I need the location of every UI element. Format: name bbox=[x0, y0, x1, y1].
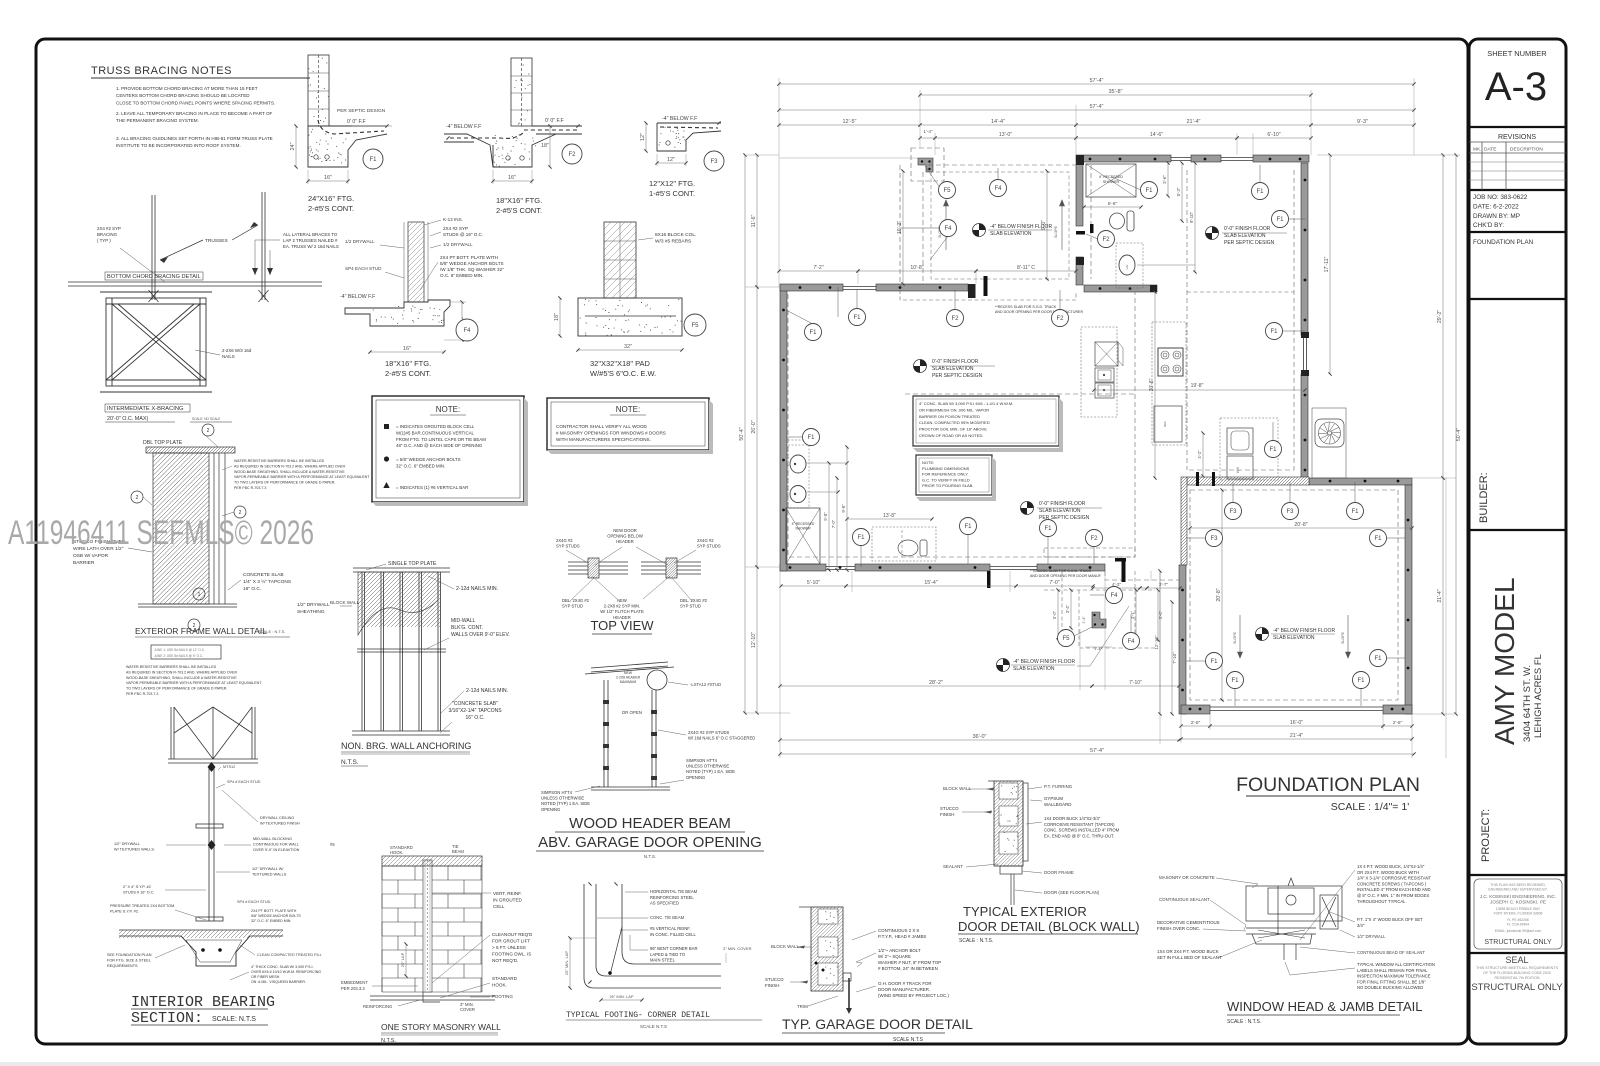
F1 footing concrete bbox=[308, 126, 387, 167]
interior bearing wall stud bbox=[196, 766, 223, 921]
svg-text:1/4" X 3-1/4" CORROSIVE RESIST: 1/4" X 3-1/4" CORROSIVE RESISTANT bbox=[1357, 876, 1432, 881]
svg-text:W/ 16d NAILS 6" O.C STAGGERED: W/ 16d NAILS 6" O.C STAGGERED bbox=[688, 736, 755, 741]
svg-text:EXTERIOR FRAME WALL DETAIL: EXTERIOR FRAME WALL DETAIL bbox=[135, 626, 267, 636]
wood header beam top bbox=[585, 662, 674, 674]
svg-text:#5 VERTICAL REINF.: #5 VERTICAL REINF. bbox=[650, 926, 691, 931]
svg-text:FOUNDATION PLAN: FOUNDATION PLAN bbox=[1473, 239, 1534, 246]
footing tag F2 bbox=[1052, 310, 1069, 327]
svg-text:MASONRY OR CONCRETE: MASONRY OR CONCRETE bbox=[1159, 875, 1215, 880]
svg-text:AND DOOR OPENING PER DOOR MANU: AND DOOR OPENING PER DOOR MANUFACTURER bbox=[995, 310, 1083, 314]
svg-text:W/ TEXTURED WALLS.: W/ TEXTURED WALLS. bbox=[114, 848, 155, 852]
note box contractor verify bbox=[547, 398, 709, 450]
svg-text:SCALE N.T.S: SCALE N.T.S bbox=[640, 1024, 667, 1029]
corner bar diagonal bbox=[610, 927, 622, 975]
svg-text:K-13 INS.: K-13 INS. bbox=[443, 217, 463, 222]
dim garage interior bbox=[1190, 527, 1412, 529]
kitchen counters dashed bbox=[1081, 322, 1186, 445]
svg-text:8'-11" C: 8'-11" C bbox=[1017, 265, 1035, 271]
svg-text:1/4" X 3 ½" TAPCONS: 1/4" X 3 ½" TAPCONS bbox=[243, 578, 291, 585]
svg-text:0' 0" F.F: 0' 0" F.F bbox=[347, 119, 366, 125]
bottom page edge band bbox=[0, 1062, 1600, 1066]
svg-text:BOTTOM CHORD BRACING DETAIL: BOTTOM CHORD BRACING DETAIL bbox=[107, 274, 201, 280]
svg-text:12"X12" FTG.: 12"X12" FTG. bbox=[649, 179, 695, 188]
footing tag F1 bbox=[1265, 441, 1282, 458]
footing tag F2 bbox=[1086, 530, 1103, 547]
svg-text:= INDICATES GROUTED BLOCK CELL: = INDICATES GROUTED BLOCK CELL bbox=[396, 424, 475, 429]
svg-text:PER FBC R-703.7.3: PER FBC R-703.7.3 bbox=[126, 692, 158, 696]
svg-text:PLATE S.Y.P. #2.: PLATE S.Y.P. #2. bbox=[110, 910, 139, 914]
F2 rebar dashes bbox=[450, 130, 578, 138]
svg-text:DOOR (SEE FLOOR PLAN): DOOR (SEE FLOOR PLAN) bbox=[1044, 890, 1100, 895]
svg-text:VERT. REINF.: VERT. REINF. bbox=[493, 891, 522, 896]
svg-text:DBL. 2X4G #2: DBL. 2X4G #2 bbox=[562, 598, 590, 603]
wall garage left bbox=[1179, 565, 1186, 714]
svg-text:-4" BELOW FINISH FLOOR: -4" BELOW FINISH FLOOR bbox=[1013, 659, 1075, 665]
svg-text:DRAWN BY: MP: DRAWN BY: MP bbox=[1473, 213, 1520, 220]
svg-text:= INDICATES (1) #6 VERTICAL BA: = INDICATES (1) #6 VERTICAL BAR bbox=[396, 485, 468, 490]
svg-text:O.H. DOOR # TRACK FOR: O.H. DOOR # TRACK FOR bbox=[878, 981, 932, 986]
svg-text:F2: F2 bbox=[1102, 237, 1110, 243]
svg-text:1'-4": 1'-4" bbox=[923, 129, 933, 134]
svg-text:LAV: LAV bbox=[1125, 264, 1129, 269]
F3 rebar dashes bbox=[660, 127, 718, 128]
door opening jambs bbox=[591, 680, 670, 790]
svg-text:5/8" WEDGE ANCHOR BOLTS: 5/8" WEDGE ANCHOR BOLTS bbox=[440, 261, 504, 266]
svg-text:25" LAP: 25" LAP bbox=[400, 952, 405, 967]
svg-text:JOB NO: 383-0622: JOB NO: 383-0622 bbox=[1473, 194, 1528, 201]
svg-text:1/2"~ ANCHOR BOLT: 1/2"~ ANCHOR BOLT bbox=[878, 948, 921, 953]
svg-text:SECTION:: SECTION: bbox=[131, 1010, 203, 1027]
svg-text:SLOPE: SLOPE bbox=[1233, 631, 1237, 644]
svg-text:LABELS SHALL REMAIN FOR FINAL: LABELS SHALL REMAIN FOR FINAL bbox=[1357, 968, 1428, 973]
footing tag F4 bbox=[990, 180, 1007, 197]
svg-text:2-2X6 W/3 16d: 2-2X6 W/3 16d bbox=[222, 348, 252, 353]
footing tag F1 bbox=[1040, 520, 1057, 537]
svg-text:13'-8": 13'-8" bbox=[883, 513, 896, 519]
interior dashed slab edges bbox=[788, 165, 1398, 700]
svg-text:W(1)#5 BAR.CONTINUOUS VERTICAL: W(1)#5 BAR.CONTINUOUS VERTICAL bbox=[396, 430, 475, 435]
svg-text:SP4 # EACH STUD: SP4 # EACH STUD bbox=[237, 900, 271, 904]
svg-text:IN GROUTED: IN GROUTED bbox=[493, 898, 523, 903]
dim top extension lines bbox=[779, 78, 1414, 287]
svg-text:F2: F2 bbox=[568, 152, 576, 158]
svg-text:SCALE: NO SCALE: SCALE: NO SCALE bbox=[192, 417, 220, 421]
bath2 dashed partitions bbox=[788, 440, 936, 561]
svg-text:TOP VIEW: TOP VIEW bbox=[590, 618, 654, 633]
svg-text:WASHER # NUT, 8" FROM TOP: WASHER # NUT, 8" FROM TOP bbox=[878, 960, 941, 965]
svg-text:WOOD-BASE SHEATHING, SHALL INC: WOOD-BASE SHEATHING, SHALL INCLUDE A WAT… bbox=[126, 676, 237, 680]
wall garage right bbox=[1405, 485, 1412, 714]
svg-text:F1: F1 bbox=[809, 330, 817, 336]
slab note box bbox=[913, 396, 1059, 446]
svg-text:35'-8": 35'-8" bbox=[1108, 89, 1122, 95]
svg-text:3" MIN. COVER: 3" MIN. COVER bbox=[723, 946, 752, 951]
svg-text:PER SEPTIC DESIGN: PER SEPTIC DESIGN bbox=[337, 108, 386, 114]
wall left wing top bbox=[780, 284, 843, 291]
svg-text:5'-0": 5'-0" bbox=[1158, 610, 1163, 619]
svg-text:SHOWER: SHOWER bbox=[1103, 180, 1120, 184]
svg-text:3. ALL BRACING GUIDLINES SET: 3. ALL BRACING GUIDLINES SET FORTH IN HI… bbox=[116, 136, 273, 141]
svg-text:0'-0" FINISH FLOOR: 0'-0" FINISH FLOOR bbox=[932, 359, 979, 365]
footing tag F3 bbox=[1282, 503, 1299, 520]
svg-text:2X4G #2: 2X4G #2 bbox=[697, 538, 714, 543]
svg-text:BUILDER:: BUILDER: bbox=[1478, 472, 1490, 523]
svg-text:CONTINUOUS 2 X 8: CONTINUOUS 2 X 8 bbox=[878, 928, 920, 933]
svg-text:20'-8": 20'-8" bbox=[1294, 522, 1307, 528]
svg-text:FOR FINAL FITTING SHALL BE 1/: FOR FINAL FITTING SHALL BE 1/8" bbox=[1357, 979, 1426, 984]
svg-text:NEW DOOR: NEW DOOR bbox=[613, 528, 637, 533]
svg-text:PROJECT:: PROJECT: bbox=[1480, 809, 1492, 862]
dim top 57-4 line2 bbox=[779, 109, 1414, 111]
F4 16 inch dim bbox=[370, 351, 444, 353]
svg-text:STUCCO: STUCCO bbox=[765, 977, 784, 982]
svg-text:17'-11": 17'-11" bbox=[1324, 256, 1330, 272]
slab elevation garage bbox=[1256, 628, 1269, 641]
svg-text:4" THICK CONC. SLAB W/ 3,000 P: 4" THICK CONC. SLAB W/ 3,000 P.S.I. bbox=[251, 965, 313, 969]
svg-text:F4: F4 bbox=[1127, 639, 1135, 645]
kitchen wall oven bbox=[1095, 342, 1118, 366]
F4 18 inch dim bbox=[461, 302, 463, 340]
dim left verticals bbox=[756, 155, 758, 287]
svg-text:THROUGHOUT TYPICAL: THROUGHOUT TYPICAL bbox=[1357, 899, 1406, 904]
svg-text:BLOCK WALL: BLOCK WALL bbox=[771, 944, 799, 949]
svg-text:36'-0": 36'-0" bbox=[972, 734, 986, 740]
svg-text:WATER-RESISTIVE BARRIERS SHALL: WATER-RESISTIVE BARRIERS SHALL BE INSTAL… bbox=[234, 459, 325, 463]
svg-text:WOOD-BASE SHEATHING, SHALL INC: WOOD-BASE SHEATHING, SHALL INCLUDE A WAT… bbox=[234, 470, 345, 474]
svg-text:2-#5'S CONT.: 2-#5'S CONT. bbox=[385, 369, 431, 378]
svg-text:32": 32" bbox=[624, 344, 632, 350]
svg-text:OR FIBERMESH ON .006 MIL. VAP: OR FIBERMESH ON .006 MIL. VAPOR bbox=[919, 407, 989, 412]
svg-text:MID-WALL BLOCKING: MID-WALL BLOCKING bbox=[253, 837, 292, 841]
note box grouted cells bbox=[372, 396, 524, 502]
svg-text:-4" BELOW FINISH FLOOR: -4" BELOW FINISH FLOOR bbox=[1273, 628, 1335, 634]
porch dashed outline bbox=[900, 148, 1076, 287]
engineer stamp box bbox=[1474, 879, 1562, 949]
masonry top tie beam bbox=[382, 856, 482, 866]
patio step blocks bbox=[1092, 612, 1106, 628]
svg-text:9'-3": 9'-3" bbox=[1357, 119, 1368, 125]
svg-text:W/3 #5 REBARS: W/3 #5 REBARS bbox=[655, 239, 691, 245]
svg-text:AS SPECIFIED: AS SPECIFIED bbox=[650, 901, 679, 906]
sgd recess marker bbox=[984, 276, 988, 296]
svg-text:MID-WALL: MID-WALL bbox=[451, 618, 475, 624]
svg-text:0' 0" F.F: 0' 0" F.F bbox=[545, 118, 564, 124]
svg-text:2X4 PT BOTT. PLATE WITH: 2X4 PT BOTT. PLATE WITH bbox=[440, 255, 498, 260]
svg-text:SP4 EACH STUD: SP4 EACH STUD bbox=[345, 266, 382, 271]
svg-text:STANDARD: STANDARD bbox=[492, 976, 518, 981]
plumbing note box bbox=[916, 455, 992, 495]
svg-text:NOTED (TYP) 1 EA. SIDE: NOTED (TYP) 1 EA. SIDE bbox=[541, 801, 590, 806]
svg-text:F1: F1 bbox=[1357, 678, 1365, 684]
svg-text:F3: F3 bbox=[1229, 509, 1237, 515]
wall garage top hatched bbox=[1187, 477, 1309, 485]
F3 12 inch vertical dim bbox=[645, 123, 647, 151]
svg-text:5'-8": 5'-8" bbox=[1108, 201, 1118, 207]
svg-text:OF THE FLORIDA BUILDING CODE: OF THE FLORIDA BUILDING CODE 2020 bbox=[1483, 971, 1551, 975]
wall house bottom bbox=[780, 564, 826, 571]
fridge bbox=[1154, 406, 1182, 442]
svg-text:SLOPE: SLOPE bbox=[1054, 225, 1058, 238]
svg-text:CONTINUOUS SEALANT: CONTINUOUS SEALANT bbox=[1159, 897, 1210, 902]
svg-text:CLOSE TO BOTTOM CHORD PANEL PO: CLOSE TO BOTTOM CHORD PANEL POINTS WHERE… bbox=[116, 100, 275, 105]
svg-text:5'-8": 5'-8" bbox=[823, 512, 828, 521]
svg-text:AND DOOR OPENING PER DOOR MANU: AND DOOR OPENING PER DOOR MANUF. bbox=[1030, 574, 1102, 578]
svg-text:FOR GROUT LIFT: FOR GROUT LIFT bbox=[492, 939, 530, 944]
svg-text:5'-3": 5'-3" bbox=[1176, 187, 1181, 196]
footing tag F1 bbox=[1370, 530, 1387, 547]
svg-text:1/2" DRYWALL: 1/2" DRYWALL bbox=[1357, 934, 1386, 939]
svg-text:DATE: 6-2-2022: DATE: 6-2-2022 bbox=[1473, 203, 1519, 210]
svg-text:F5: F5 bbox=[691, 323, 699, 329]
svg-text:7'-2": 7'-2" bbox=[813, 265, 823, 271]
svg-text:SCALE: N.T.S: SCALE: N.T.S bbox=[212, 1016, 256, 1023]
corner detail dims bbox=[569, 938, 571, 988]
svg-text:LAPED & TIED TO: LAPED & TIED TO bbox=[650, 952, 686, 957]
dim top 35-8 bbox=[920, 94, 1311, 96]
svg-text:F1: F1 bbox=[369, 157, 377, 163]
dim bottom row house bbox=[781, 585, 846, 587]
dim interior upper bbox=[779, 270, 858, 272]
bath2 fixtures left bbox=[788, 445, 809, 508]
svg-text:CLEAN. COMPACTED 95% MODIFIED: CLEAN. COMPACTED 95% MODIFIED bbox=[919, 420, 990, 425]
F2 16 inch dim bbox=[493, 180, 532, 182]
svg-text:NEW: NEW bbox=[624, 671, 633, 675]
svg-text:F1: F1 bbox=[1044, 526, 1052, 532]
svg-text:TYPICAL FOOTING- CORNER DETAIL: TYPICAL FOOTING- CORNER DETAIL bbox=[566, 1011, 710, 1020]
svg-text:GYPSUM: GYPSUM bbox=[1044, 796, 1063, 801]
dim right verticals bbox=[1329, 155, 1331, 374]
svg-text:BARRIER ON POISON TREATED: BARRIER ON POISON TREATED bbox=[919, 414, 980, 419]
svg-text:MK.: MK. bbox=[1473, 147, 1482, 153]
svg-text:F1: F1 bbox=[1210, 659, 1218, 665]
callout circle 1 bbox=[193, 588, 205, 600]
svg-text:INSTITUTE TO BE INCORPORATED I: INSTITUTE TO BE INCORPORATED INTO ROOF S… bbox=[116, 143, 241, 148]
svg-text:PLUMBING DIMENSIONS: PLUMBING DIMENSIONS bbox=[922, 466, 970, 471]
svg-text:**RECESS SLAB FOR S.G.D. TRACK: **RECESS SLAB FOR S.G.D. TRACK bbox=[1030, 569, 1092, 573]
svg-text:FL COA #9494: FL COA #9494 bbox=[1507, 923, 1529, 927]
svg-text:"CONCRETE SLAB": "CONCRETE SLAB" bbox=[452, 701, 498, 707]
svg-text:32" O.C. 6" EMBED MIN.: 32" O.C. 6" EMBED MIN. bbox=[251, 919, 291, 923]
svg-text:ABV. GARAGE DOOR OPENING: ABV. GARAGE DOOR OPENING bbox=[538, 834, 762, 851]
svg-text:57'-4": 57'-4" bbox=[1090, 748, 1104, 754]
svg-text:SHEET NUMBER: SHEET NUMBER bbox=[1487, 49, 1547, 58]
svg-text:STRUCTURAL ONLY: STRUCTURAL ONLY bbox=[1471, 982, 1563, 993]
svg-text:DECORATIVE CEMENTITIOUS: DECORATIVE CEMENTITIOUS bbox=[1157, 920, 1220, 925]
svg-text:MTS12: MTS12 bbox=[223, 765, 235, 769]
svg-text:OVER 6X6 # 10/10 W.W.M. REINFO: OVER 6X6 # 10/10 W.W.M. REINFORCING bbox=[251, 970, 321, 974]
svg-text:14'-6": 14'-6" bbox=[1150, 132, 1163, 138]
svg-text:12'-5": 12'-5" bbox=[842, 119, 856, 125]
svg-text:SYP STUDS: SYP STUDS bbox=[556, 544, 580, 549]
svg-text:CENTERS BOTTOM CHORD BRACING S: CENTERS BOTTOM CHORD BRACING SHOULD BE L… bbox=[116, 93, 250, 98]
interior bearing truss top bbox=[168, 707, 258, 763]
svg-text:FL PE #52266: FL PE #52266 bbox=[1507, 918, 1529, 922]
svg-text:PER SEPTIC DESIGN: PER SEPTIC DESIGN bbox=[932, 373, 983, 379]
svg-text:ALL LATERAL BRACES TO: ALL LATERAL BRACES TO bbox=[283, 232, 338, 237]
dim bottom extensions bbox=[780, 478, 1446, 758]
svg-text:5/8" WEDGE ANCHOR BOLTS: 5/8" WEDGE ANCHOR BOLTS bbox=[251, 914, 301, 918]
svg-text:10'-2": 10'-2" bbox=[897, 221, 903, 234]
svg-text:F1: F1 bbox=[1256, 189, 1264, 195]
svg-text:O.C. 6" EMBED MIN.: O.C. 6" EMBED MIN. bbox=[440, 273, 484, 278]
slope arrows garage bbox=[1238, 615, 1351, 658]
svg-text:18": 18" bbox=[554, 313, 560, 321]
svg-text:WOOD HEADER BEAM: WOOD HEADER BEAM bbox=[569, 815, 731, 832]
svg-text:1X4 DOOR BUCK 1/4"X2-3/4": 1X4 DOOR BUCK 1/4"X2-3/4" bbox=[1044, 816, 1101, 821]
wh pad bbox=[1227, 428, 1253, 454]
svg-text:PER SEPTIC DESIGN: PER SEPTIC DESIGN bbox=[1224, 240, 1275, 246]
svg-text:F2: F2 bbox=[951, 316, 959, 322]
svg-text:CONTRACTOR SHALL VERIFY ALL WO: CONTRACTOR SHALL VERIFY ALL WOOD bbox=[556, 424, 648, 429]
svg-text:STUCCO: STUCCO bbox=[940, 806, 959, 811]
garage door track bbox=[848, 978, 850, 1008]
footing tag F4 bbox=[456, 319, 478, 341]
svg-text:SEALANT: SEALANT bbox=[943, 864, 963, 869]
svg-text:DATE: DATE bbox=[1484, 147, 1496, 153]
svg-text:1. PROVIDE BOTTOM CHORD BRAC: 1. PROVIDE BOTTOM CHORD BRACING AT MORE … bbox=[116, 86, 258, 91]
dims lower-left interior bbox=[847, 518, 932, 520]
svg-text:BRACING: BRACING bbox=[97, 232, 118, 237]
svg-text:5'-10": 5'-10" bbox=[807, 580, 820, 586]
svg-text:2X4G #2 SYP STUDS: 2X4G #2 SYP STUDS bbox=[688, 730, 730, 735]
patio dashed lines rear bbox=[1044, 548, 1155, 648]
callout circles 2 bbox=[202, 424, 214, 436]
svg-text:3'-7": 3'-7" bbox=[1159, 582, 1169, 587]
svg-text:2X4 #2 SYP: 2X4 #2 SYP bbox=[97, 226, 121, 231]
svg-text:SP4 # EACH STUD: SP4 # EACH STUD bbox=[227, 780, 261, 784]
footing tag F5 bbox=[939, 182, 956, 199]
svg-text:BLOCK WALL: BLOCK WALL bbox=[943, 786, 971, 791]
svg-text:29'-2": 29'-2" bbox=[1437, 310, 1443, 323]
dim top segments row bbox=[779, 124, 920, 126]
svg-text:3'-4": 3'-4" bbox=[1065, 604, 1070, 613]
svg-text:12'-10": 12'-10" bbox=[1154, 635, 1159, 650]
svg-text:F1: F1 bbox=[1269, 447, 1277, 453]
svg-text:2. LEAVE ALL TEMPORARY BRACI: 2. LEAVE ALL TEMPORARY BRACING IN PLACE … bbox=[116, 111, 273, 116]
job info cell bbox=[1469, 231, 1566, 233]
footing tag F1 bbox=[363, 149, 383, 169]
svg-text:2'-8": 2'-8" bbox=[1393, 720, 1403, 726]
svg-text:2'-8": 2'-8" bbox=[1191, 720, 1201, 726]
svg-text:F1: F1 bbox=[1145, 188, 1153, 194]
F1 16 inch dim bbox=[308, 180, 348, 182]
svg-text:PER 203.3.3: PER 203.3.3 bbox=[341, 986, 365, 991]
svg-text:INTERIOR BEARING: INTERIOR BEARING bbox=[131, 994, 275, 1011]
footing tag F1 bbox=[960, 518, 977, 535]
svg-text:DOOR FRAME: DOOR FRAME bbox=[1044, 870, 1074, 875]
svg-text:G.C. TO VERIFY IN FIELD: G.C. TO VERIFY IN FIELD bbox=[922, 477, 970, 482]
svg-text:THIS PLAN HAS BEEN REVIEWED,: THIS PLAN HAS BEEN REVIEWED, bbox=[1490, 883, 1546, 887]
svg-text:25" MIN. LAP: 25" MIN. LAP bbox=[609, 994, 633, 999]
svg-text:4'-2": 4'-2" bbox=[1197, 450, 1202, 459]
svg-text:21'-4": 21'-4" bbox=[1290, 733, 1303, 739]
svg-text:DR OPEN: DR OPEN bbox=[622, 710, 642, 715]
svg-text:16'-0": 16'-0" bbox=[1290, 720, 1303, 726]
svg-text:CONCRETE SLAB: CONCRETE SLAB bbox=[243, 572, 284, 578]
svg-text:THE PERMANENT BRACING SYSTEM.: THE PERMANENT BRACING SYSTEM. bbox=[116, 118, 199, 123]
svg-text:32" O.C. 6" EMBED MIN.: 32" O.C. 6" EMBED MIN. bbox=[396, 463, 445, 468]
slab elevation living bbox=[914, 360, 927, 373]
svg-text:W/ TEXTURED FINISH: W/ TEXTURED FINISH bbox=[260, 822, 300, 826]
svg-text:STUDS # 16" O.C.: STUDS # 16" O.C. bbox=[123, 891, 155, 895]
revisions table bbox=[1469, 189, 1566, 191]
svg-text:F1: F1 bbox=[964, 524, 972, 530]
svg-text:57'-4": 57'-4" bbox=[1089, 104, 1103, 110]
svg-text:OR FIBER MESH: OR FIBER MESH bbox=[251, 975, 280, 979]
builder cell bbox=[1469, 529, 1566, 531]
svg-text:2X4 #2 SYP: 2X4 #2 SYP bbox=[443, 226, 468, 231]
svg-text:TRUSS BRACING NOTES: TRUSS BRACING NOTES bbox=[91, 65, 232, 77]
garage door wall section bbox=[811, 907, 843, 991]
svg-text:24"X16" FTG.: 24"X16" FTG. bbox=[308, 194, 354, 203]
svg-text:2-#5'S CONT.: 2-#5'S CONT. bbox=[308, 204, 354, 213]
masonry footing lines bbox=[370, 995, 495, 997]
svg-text:N.T.S.: N.T.S. bbox=[644, 854, 656, 859]
svg-text:BLOCK WALL: BLOCK WALL bbox=[330, 600, 360, 605]
svg-text:21'-4": 21'-4" bbox=[1437, 589, 1443, 602]
svg-text:ONE STORY MASONRY WALL: ONE STORY MASONRY WALL bbox=[381, 1022, 501, 1032]
svg-text:-4" BELOW F.F: -4" BELOW F.F bbox=[446, 124, 481, 130]
svg-text:25" MIN. LAP: 25" MIN. LAP bbox=[564, 951, 569, 975]
footing tag F3 bbox=[1225, 503, 1242, 520]
masonry 25 lap dim bbox=[405, 944, 407, 976]
svg-text:OSB W/ VAPOR: OSB W/ VAPOR bbox=[73, 553, 109, 559]
svg-text:1/2" DRYWALL: 1/2" DRYWALL bbox=[297, 602, 330, 608]
F2 footing concrete bbox=[444, 126, 582, 167]
svg-text:NOTE:: NOTE: bbox=[436, 405, 460, 414]
svg-text:HORIZONTAL TIE BEAM: HORIZONTAL TIE BEAM bbox=[650, 889, 698, 894]
svg-text:SLAB ELEVATION: SLAB ELEVATION bbox=[1224, 233, 1266, 239]
svg-text:(WIND SPEED BY PROJECT LOC.): (WIND SPEED BY PROJECT LOC.) bbox=[878, 993, 949, 998]
footing tag F1 bbox=[1347, 503, 1364, 520]
svg-text:CELL: CELL bbox=[493, 904, 505, 909]
svg-text:10'-8": 10'-8" bbox=[910, 265, 923, 271]
svg-text:12": 12" bbox=[640, 133, 646, 141]
svg-text:1/2 DRYWALL: 1/2 DRYWALL bbox=[345, 239, 375, 244]
svg-text:DESCRIPTION: DESCRIPTION bbox=[1510, 147, 1543, 153]
svg-text:SCALE : N.T.S.: SCALE : N.T.S. bbox=[959, 938, 993, 944]
porch corner post bbox=[918, 158, 933, 172]
svg-text:# MASONRY OPENINGS FOR WINDOWS: # MASONRY OPENINGS FOR WINDOWS # DOORS bbox=[556, 431, 666, 436]
extension line to porch corner bbox=[779, 157, 918, 159]
svg-text:SLAB ELEVATION: SLAB ELEVATION bbox=[1013, 666, 1055, 672]
svg-text:CROWN OF ROAD OR AS NOTED.: CROWN OF ROAD OR AS NOTED. bbox=[919, 433, 983, 438]
wall garage left hatched upper bbox=[1181, 477, 1187, 565]
footing tag F1 bbox=[1227, 672, 1244, 689]
svg-text:7'-0": 7'-0" bbox=[831, 519, 836, 528]
svg-text:ENGINEERED AND SUPERVISED BY:: ENGINEERED AND SUPERVISED BY: bbox=[1488, 888, 1547, 892]
svg-text:VAPOR-PERMEABLE BARRIER WITH: VAPOR-PERMEABLE BARRIER WITH A PERFORMAN… bbox=[126, 681, 262, 685]
svg-text:0'-0" FINISH FLOOR: 0'-0" FINISH FLOOR bbox=[1039, 501, 1086, 507]
svg-text:LEHIGH ACRES FL: LEHIGH ACRES FL bbox=[1533, 654, 1544, 738]
svg-text:2: 2 bbox=[136, 495, 139, 501]
svg-text:DRYWALL CEILING: DRYWALL CEILING bbox=[260, 816, 294, 820]
svg-text:SIMPSON HTT4: SIMPSON HTT4 bbox=[541, 790, 573, 795]
svg-text:21'-4": 21'-4" bbox=[1186, 119, 1200, 125]
svg-text:FOOTING: FOOTING bbox=[492, 994, 513, 999]
svg-text:SHEATHING: SHEATHING bbox=[297, 609, 325, 615]
svg-text:F1: F1 bbox=[1374, 536, 1382, 542]
svg-text:FINISH: FINISH bbox=[765, 983, 779, 988]
svg-text:2-12d NAILS MIN.: 2-12d NAILS MIN. bbox=[466, 688, 508, 694]
svg-text:TYPICAL WINDOW ALL CERTIFICATI: TYPICAL WINDOW ALL CERTIFICATION bbox=[1357, 962, 1435, 967]
svg-text:1/2" DRYWALL: 1/2" DRYWALL bbox=[114, 842, 140, 846]
svg-text:0'-0" FINISH FLOOR: 0'-0" FINISH FLOOR bbox=[1224, 226, 1271, 232]
svg-text:SYP STUD: SYP STUD bbox=[680, 604, 701, 609]
interior bearing footing bbox=[119, 930, 283, 966]
footing tag F2 bbox=[562, 144, 582, 164]
wall kitchen divider vertical bbox=[1076, 163, 1083, 226]
